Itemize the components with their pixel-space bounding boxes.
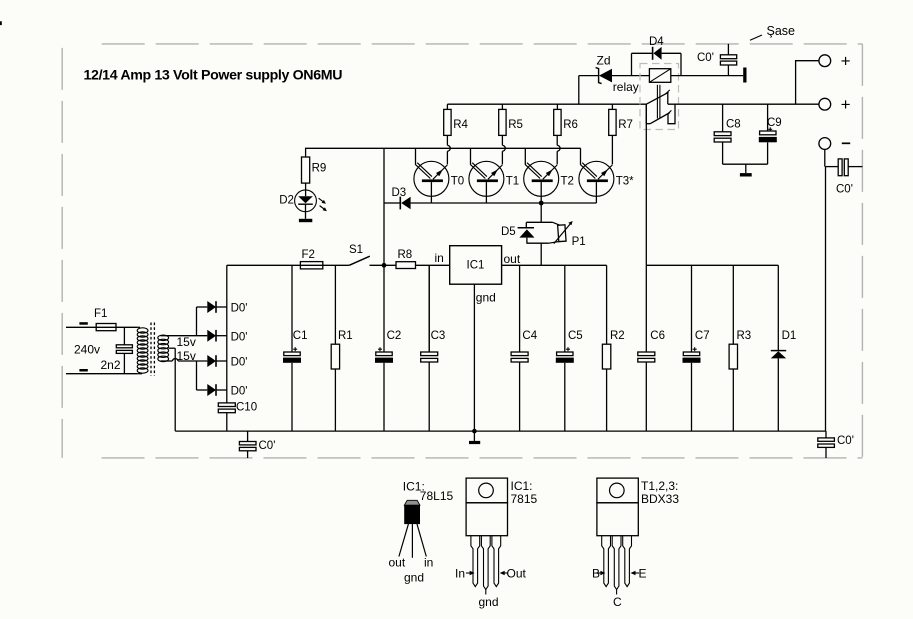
svg-text:T3*: T3* — [616, 175, 634, 187]
resistor R5 — [501, 104, 503, 109]
label - (minus) — [842, 142, 850, 144]
svg-text:T1: T1 — [506, 175, 519, 187]
svg-text:R7: R7 — [618, 119, 633, 131]
svg-text:R9: R9 — [312, 163, 327, 175]
wire — [723, 163, 768, 165]
svg-text:D0': D0' — [231, 331, 248, 343]
resistor R1 — [334, 265, 336, 344]
capacitor C4 — [519, 265, 521, 352]
node (gnd junction) — [472, 429, 477, 434]
svg-text:C9: C9 — [767, 117, 782, 129]
svg-text:2n2: 2n2 — [101, 358, 121, 372]
wire (collector T1) — [470, 148, 472, 164]
svg-text:gnd: gnd — [404, 571, 424, 585]
wire (Zd feed) — [578, 76, 580, 105]
wire (IC1 gnd lead) — [473, 284, 475, 431]
svg-text:C2: C2 — [387, 330, 402, 342]
svg-text:78L15: 78L15 — [420, 489, 454, 503]
page corner mark — [0, 21, 2, 25]
resistor R9 — [302, 157, 310, 183]
capacitor C6 — [645, 265, 647, 352]
capacitor C3 — [428, 265, 430, 352]
pin arrow (E) — [631, 571, 636, 575]
transistor T2 — [524, 161, 559, 196]
package T1,2,3 BDX33 (TO-220) — [597, 478, 638, 503]
svg-text:D1: D1 — [782, 330, 797, 342]
svg-text:in: in — [424, 556, 433, 570]
wire — [526, 242, 549, 244]
transformer core — [150, 323, 152, 376]
svg-text:D3: D3 — [392, 187, 407, 199]
svg-text:F1: F1 — [94, 308, 107, 320]
capacitor C0' (gnd/chassis left) — [247, 431, 249, 441]
resistor R4 — [446, 104, 448, 109]
node (base bus junction) — [539, 201, 544, 206]
wire (minus rail) — [824, 149, 826, 166]
chassis border (Sase net) — [62, 44, 862, 458]
svg-text:C6: C6 — [650, 330, 665, 342]
pin arrow (Out) — [500, 571, 505, 575]
svg-text:gnd: gnd — [479, 595, 499, 609]
resistor R7 — [611, 104, 613, 109]
wire — [197, 306, 208, 308]
AC line terminal (bottom) — [79, 369, 87, 372]
diode D0' #3 — [207, 355, 216, 367]
svg-text:R5: R5 — [508, 119, 523, 131]
svg-text:R2: R2 — [610, 330, 625, 342]
wire (rectifier + rail) — [226, 265, 228, 403]
svg-text:IC1: IC1 — [467, 260, 485, 272]
svg-text:R6: R6 — [563, 119, 578, 131]
svg-text:C4: C4 — [522, 330, 537, 342]
pin arrow (In) — [470, 571, 475, 575]
ground (D2) — [299, 219, 312, 222]
pin arrow (B) — [600, 571, 605, 575]
svg-text:D2: D2 — [279, 195, 294, 207]
diode D0' #4 — [207, 384, 216, 396]
svg-text:D5: D5 — [501, 226, 516, 238]
svg-text:S1: S1 — [349, 244, 363, 256]
LED D2 — [295, 190, 317, 212]
svg-text:T2: T2 — [561, 175, 574, 187]
wire — [526, 221, 552, 223]
resistor R6 — [556, 104, 558, 109]
op-amp U1 regulator IC1 box — [450, 246, 502, 285]
ground (C8/C9) — [745, 164, 747, 173]
svg-text:D0': D0' — [231, 303, 248, 315]
svg-text:BDX33: BDX33 — [641, 492, 679, 506]
wire (raw DC rail) — [227, 264, 301, 266]
wire — [323, 264, 349, 266]
svg-text:P1: P1 — [572, 236, 586, 248]
capacitor C0' (minus/chassis) — [826, 166, 839, 168]
capacitor C10 — [218, 403, 235, 407]
wire (relay output down to output rail) — [645, 104, 647, 265]
svg-text:C0': C0' — [697, 52, 714, 64]
svg-text:C0': C0' — [836, 183, 853, 195]
svg-text:R1: R1 — [338, 330, 353, 342]
svg-text:C0': C0' — [259, 440, 276, 452]
wire — [66, 373, 138, 375]
transistor T1 — [469, 161, 504, 196]
wire — [196, 307, 198, 336]
diode D0' #2 — [207, 330, 216, 342]
package IC1 7815 (TO-220) — [466, 478, 507, 503]
capacitor C0' (gnd/chassis right) — [825, 431, 827, 438]
wire (contact output to + bus) — [668, 103, 819, 105]
svg-text:7815: 7815 — [511, 492, 538, 506]
terminal + (top) — [819, 55, 831, 67]
wire (regulator output rail) — [502, 264, 607, 266]
wire (secondary bottom tap) — [161, 360, 173, 362]
chassis bar — [743, 68, 746, 83]
svg-text:T0: T0 — [451, 175, 464, 187]
svg-text:out: out — [504, 252, 521, 266]
capacitor C8 — [722, 104, 724, 132]
potentiometer P1 — [553, 222, 560, 225]
relay contact actuator — [656, 85, 658, 119]
wire (secondary centre tap) — [169, 347, 176, 349]
ground (IC1) — [469, 441, 480, 444]
svg-text:in: in — [435, 251, 444, 265]
fuse F1 — [96, 324, 116, 331]
diode D4 (flyback) — [631, 53, 633, 75]
svg-text:C3: C3 — [431, 330, 446, 342]
diode D5 — [518, 227, 534, 229]
wire (secondary top tap) — [161, 335, 208, 337]
resistor R3 — [732, 265, 734, 344]
svg-text:D0': D0' — [231, 357, 248, 369]
wire — [370, 264, 397, 266]
wire (emitter output bus) — [447, 103, 646, 105]
wire (collector T3*) — [580, 148, 582, 164]
svg-text:12/14 Amp 13 Volt Power supply: 12/14 Amp 13 Volt Power supply ON6MU — [84, 68, 343, 84]
wire (collector T2) — [524, 148, 526, 164]
wire (base bus) — [431, 202, 596, 204]
svg-text:Zd: Zd — [597, 53, 611, 67]
resistor R2 — [606, 265, 608, 344]
transistor T3* — [579, 161, 614, 196]
capacitor C3 (lead) — [428, 265, 430, 352]
relay dashed box — [640, 64, 679, 130]
wire — [416, 264, 450, 266]
svg-text:D0': D0' — [231, 386, 248, 398]
wire (coil to chassis) — [671, 75, 743, 77]
svg-text:C: C — [613, 595, 622, 609]
wire (P1 to output rail) — [540, 243, 542, 265]
svg-text:Şase: Şase — [767, 24, 796, 38]
wire (base bus to P1) — [540, 203, 542, 222]
svg-text:C8: C8 — [726, 118, 741, 130]
capacitor C5 — [564, 265, 566, 352]
capacitor C1 — [291, 265, 293, 352]
wire (output rail) — [646, 264, 778, 266]
svg-text:C10: C10 — [236, 402, 257, 414]
capacitor C7 — [691, 265, 693, 352]
svg-text:relay: relay — [613, 80, 639, 94]
terminal - (minus) — [819, 138, 831, 150]
AC line terminal (top) — [79, 322, 87, 325]
svg-text:F2: F2 — [302, 249, 315, 261]
svg-text:D4: D4 — [649, 36, 664, 48]
svg-text:In: In — [455, 567, 465, 581]
capacitor C0' (relay/chassis) — [727, 44, 729, 55]
wire (emitter lead T3*) — [611, 135, 613, 164]
svg-text:out: out — [389, 556, 406, 570]
capacitor C2 — [383, 265, 385, 352]
terminal + (mid) — [819, 98, 831, 110]
zener Zd — [579, 75, 598, 77]
relay contact 1 (upper) — [646, 92, 668, 104]
wire (emitter lead T0) — [446, 135, 448, 145]
wire — [305, 183, 307, 196]
diode D3 — [384, 202, 400, 204]
wire (emitter lead T2) — [556, 135, 558, 145]
diode D0' #1 — [207, 301, 216, 313]
svg-text:Out: Out — [507, 567, 527, 581]
transistor T0 — [414, 161, 449, 196]
capacitor C9 — [767, 104, 769, 131]
pin line (gnd) — [485, 589, 487, 595]
svg-text:C1: C1 — [293, 330, 308, 342]
resistor R8 — [396, 262, 416, 269]
wire — [196, 361, 198, 390]
wire (collector bus) — [306, 148, 581, 157]
diode D1 — [777, 265, 779, 350]
svg-text:E: E — [639, 567, 647, 581]
wire — [66, 326, 96, 328]
transformer secondary winding — [158, 335, 169, 341]
node (junction S1/R8/C2) — [382, 263, 387, 268]
wire (raw DC feed to collectors) — [383, 148, 385, 265]
svg-text:R4: R4 — [453, 119, 468, 131]
svg-text:+: + — [841, 51, 851, 70]
relay contact 2 (lower) — [645, 104, 647, 124]
svg-text:C5: C5 — [568, 330, 583, 342]
wire — [796, 61, 819, 104]
svg-text:+: + — [841, 95, 851, 114]
transformer primary winding — [138, 326, 140, 328]
relay coil — [649, 69, 670, 83]
wire (ground rail) — [175, 430, 825, 432]
pin line (C) — [616, 589, 618, 595]
package IC1 78L15 (TO-92) — [404, 500, 420, 505]
switch S1 — [349, 256, 370, 265]
capacitor 2n2 — [123, 327, 125, 345]
svg-text:C7: C7 — [695, 330, 710, 342]
wire — [197, 389, 208, 391]
svg-text:gnd: gnd — [476, 291, 496, 305]
svg-text:R8: R8 — [398, 249, 413, 261]
svg-text:15v: 15v — [177, 335, 196, 349]
wire — [116, 326, 138, 328]
fuse F2 — [300, 262, 322, 269]
wire (emitter lead T1) — [501, 135, 503, 145]
wire (collector T0) — [415, 148, 417, 164]
svg-text:240v: 240v — [74, 342, 100, 356]
svg-text:R3: R3 — [737, 330, 752, 342]
svg-text:C0': C0' — [837, 435, 854, 447]
